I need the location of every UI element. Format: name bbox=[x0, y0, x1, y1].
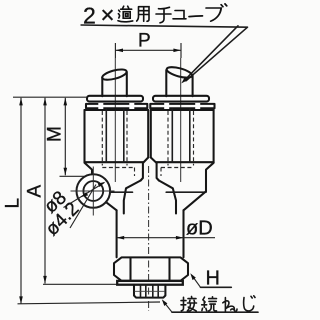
svg-text:A: A bbox=[25, 185, 46, 198]
katakana yu ュ bbox=[173, 11, 186, 19]
node H label with underline bbox=[190, 268, 231, 290]
right collar notch 1 bbox=[164, 103, 169, 109]
svg-text:øD: øD bbox=[186, 218, 213, 240]
left collar notch 1 bbox=[98, 103, 103, 109]
wire centerline right connector bbox=[180, 58, 182, 182]
inner sleeve lines bbox=[171, 109, 173, 162]
extension line right bbox=[180, 43, 182, 58]
wire centerline left connector bbox=[114, 58, 116, 182]
svg-text:M: M bbox=[45, 126, 66, 142]
hiragana ne ね bbox=[223, 298, 237, 312]
tube stub right bbox=[166, 65, 193, 96]
wire main vertical centerline bbox=[148, 166, 150, 311]
Y branch flare right bbox=[159, 181, 176, 214]
body outer chamfer left bbox=[92, 191, 117, 210]
dimension oD bbox=[117, 218, 215, 240]
crosshair horizontal bbox=[71, 190, 115, 192]
node top extension line for L A M bbox=[13, 96, 87, 98]
thread lines bbox=[140, 285, 142, 297]
shoulder face line left bbox=[92, 191, 133, 193]
wire leader wedge from label to right tube bbox=[185, 26, 238, 80]
left collar notch 2 bbox=[129, 103, 134, 109]
hiragana ji じ bbox=[244, 296, 255, 311]
left connector body bbox=[85, 109, 149, 191]
katakana bu ブ bbox=[206, 4, 227, 21]
kanji zoku 続 bbox=[202, 297, 217, 311]
leader line o4.2 bbox=[70, 185, 96, 229]
right collar notch 2 bbox=[195, 103, 200, 109]
leader line o8 bbox=[64, 183, 105, 208]
underline of top label bbox=[81, 25, 248, 27]
threaded stud bbox=[134, 285, 165, 298]
arrowhead o8 outer bbox=[98, 182, 106, 187]
svg-text:P: P bbox=[138, 31, 151, 52]
body outer chamfer right bbox=[184, 191, 207, 210]
node connection-thread label (接続ねじ) with underline and leader bbox=[162, 296, 258, 312]
node P dimension bbox=[115, 31, 181, 59]
underline bbox=[172, 311, 258, 313]
svg-text:H: H bbox=[206, 268, 220, 290]
lower column (oD body) bbox=[117, 210, 184, 257]
arrowhead inner pointing back bbox=[80, 192, 88, 197]
tube stub left bbox=[101, 67, 127, 96]
node A bottom extension line bbox=[43, 283, 118, 285]
katakana long bar ー bbox=[189, 15, 203, 18]
circle detail o8 (side port view) bbox=[71, 167, 115, 216]
svg-text:L: L bbox=[3, 198, 24, 209]
Y branch flare left bbox=[124, 181, 141, 214]
leader to stud bbox=[164, 302, 173, 313]
shoulder face line right bbox=[166, 191, 206, 193]
dimension M bbox=[45, 98, 68, 176]
right connector cap flange bbox=[153, 96, 209, 102]
inner sleeve lines bbox=[105, 109, 107, 162]
right bore dashed lines bbox=[161, 111, 194, 176]
hex nut bbox=[114, 257, 188, 280]
right connector collar band bbox=[150, 104, 214, 108]
katakana chi チ bbox=[156, 7, 171, 22]
right connector body bbox=[151, 109, 214, 191]
node M dimension extension line bbox=[60, 175, 86, 177]
washer plate under hex bbox=[117, 281, 183, 285]
extension line left (tube centerline up) bbox=[114, 43, 116, 58]
crosshair vertical bbox=[92, 167, 94, 216]
left connector collar band bbox=[86, 104, 147, 108]
node top label 2x applicable tube (2×適用チューブ) bbox=[81, 2, 248, 29]
left bore dashed lines bbox=[102, 111, 134, 176]
dimension L bbox=[3, 98, 24, 304]
kanji you 用 bbox=[137, 7, 149, 22]
dimension line P bbox=[115, 49, 181, 51]
left connector cap flange bbox=[87, 96, 143, 102]
node L bottom extension line bbox=[18, 302, 161, 304]
kanji setsu 接 bbox=[181, 297, 197, 312]
Y junction center neck bbox=[141, 158, 159, 181]
dimension A bbox=[25, 98, 47, 284]
H leader bbox=[192, 276, 201, 288]
kanji teki 適 bbox=[118, 6, 133, 22]
arrowhead on tube leader bbox=[181, 76, 188, 83]
